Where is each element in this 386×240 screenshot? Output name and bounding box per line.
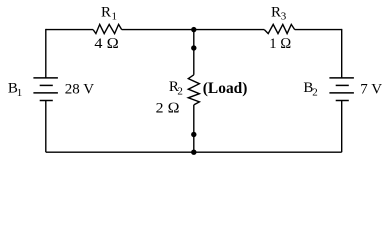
node dot top junction [191,27,196,32]
wire left-upper (B1 to top) [45,29,47,78]
svg-text:2: 2 [312,87,318,99]
wire middle-upper (top node down to R2) [193,30,195,75]
node dot upper-middle [191,45,196,50]
battery B2 plates [329,78,354,101]
resistor R3 [264,24,294,33]
svg-text:R: R [271,4,281,20]
svg-text:2: 2 [177,86,183,98]
wire right-upper (down to B2) [341,29,343,78]
svg-text:1 Ω: 1 Ω [269,36,291,52]
wire top-middle (R1 to R3 through node) [122,29,265,31]
svg-text:2 Ω: 2 Ω [156,100,180,116]
svg-text:1: 1 [17,87,23,99]
wire bottom (full width) [46,151,342,153]
resistor R2 [188,75,199,105]
svg-text:28 V: 28 V [65,81,94,97]
wire top-left (B1 to R1) [46,29,93,31]
wire top-right (R3 to B2) [295,29,342,31]
node dot lower-middle [191,132,196,137]
svg-text:7 V: 7 V [360,81,382,97]
svg-text:1: 1 [112,10,118,22]
node dot bottom junction [191,150,196,155]
wire left-lower (bottom to B1) [45,101,47,153]
wire right-lower (B2 to bottom) [341,101,343,153]
svg-text:4 Ω: 4 Ω [94,36,119,52]
svg-text:(Load): (Load) [203,80,248,97]
wire middle-lower (R2 down to bottom node) [193,105,195,152]
battery B1 plates [33,78,58,101]
svg-text:R: R [101,4,111,20]
resistor R1 [93,24,122,33]
svg-text:3: 3 [281,10,287,22]
